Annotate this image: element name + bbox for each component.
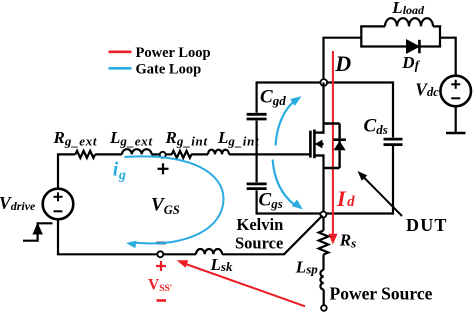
wire: gate return rail <box>57 253 158 255</box>
svg-text:Power Source: Power Source <box>330 283 433 303</box>
legend red line (Power Loop) <box>109 50 132 53</box>
step input symbol <box>23 223 53 241</box>
wire: drain vertical (node D to drain stub) <box>322 83 324 134</box>
inductor Lsp (vertical) <box>320 270 323 290</box>
capacitor Cds <box>384 139 403 145</box>
wire: gate capacitor branch upper segment <box>256 81 258 112</box>
svg-text:Gate Loop: Gate Loop <box>136 61 202 77</box>
svg-text:Power Loop: Power Loop <box>136 45 211 61</box>
resistor Rg_ext <box>75 151 95 158</box>
wire: Vdrive bottom lead <box>57 219 59 254</box>
node: power source terminal (open circle) <box>321 305 327 311</box>
label Kelvin Source <box>235 215 283 253</box>
VGS minus sign (black) <box>157 242 166 245</box>
gate loop blue arc with arrowhead <box>125 156 224 248</box>
wire Lg_ext to external gate node <box>152 153 161 155</box>
wire Rs to Lsp <box>322 255 324 271</box>
svg-text:Kelvin: Kelvin <box>237 215 284 234</box>
MOSFET Q1: source stub <box>314 154 323 156</box>
node: source sense terminal (open circle) <box>157 251 163 257</box>
wire Lsp to power source terminal <box>323 290 325 306</box>
load box left edge <box>360 26 362 46</box>
wire: load box to Vdc <box>440 38 456 76</box>
load box bottom edge <box>360 45 441 47</box>
node: Kelvin source (open circle) <box>320 212 326 218</box>
red minus sign (Vss) <box>157 299 167 302</box>
load box right edge <box>439 25 441 46</box>
wire: Cds branch (right side of DUT box) <box>392 81 394 214</box>
wire: capacitor branch middle segment <box>256 121 258 183</box>
Cgs displacement current blue arrow <box>273 160 303 210</box>
inductor Lg_int <box>208 150 229 155</box>
wire node to Rg_int <box>166 153 172 155</box>
MOSFET Q1: drain stub <box>314 131 323 133</box>
Vdc minus sign <box>451 97 460 99</box>
svg-text:Source: Source <box>235 234 283 253</box>
Vdrive minus sign <box>54 210 63 212</box>
source Vdrive (circle) <box>43 189 74 220</box>
wire: Vdc bottom lead with end bar <box>446 106 466 133</box>
body diode of Q1 <box>333 140 346 151</box>
svg-text:DUT: DUT <box>406 215 448 235</box>
wire Lg_int to MOSFET gate (crosses Cgd/Cgs branch) <box>229 153 310 155</box>
node D (open circle on top rail) <box>320 79 327 86</box>
wire Lsk to kelvin diagonal <box>222 216 322 255</box>
resistor Rs (vertical) <box>319 217 329 255</box>
wire: source vertical (source stub to kelvin node) <box>322 154 324 214</box>
svg-text:D: D <box>334 51 351 76</box>
MOSFET Q1: body stub with arrow <box>315 140 324 149</box>
legend blue line (Gate Loop) <box>109 67 132 70</box>
wire: DUT box top rail <box>257 81 394 83</box>
diode Df (freewheeling, on box bottom edge) <box>407 40 420 53</box>
MOSFET Q1: channel bar <box>313 130 316 159</box>
source Vdc (circle) <box>440 76 471 107</box>
red pointer arrow to source sense node <box>177 260 305 306</box>
wire: capacitor branch lower segment <box>256 190 258 214</box>
wire node to Lsk <box>163 253 196 255</box>
MOSFET Q1: gate bar <box>309 131 312 158</box>
wire between Rg_ext and Lg_ext <box>95 153 122 155</box>
wire: DUT box bottom rail <box>257 212 394 214</box>
Vdrive plus sign <box>54 192 63 201</box>
Vdc plus sign <box>451 80 460 89</box>
body diode branch: top and bottom ties <box>324 124 340 169</box>
Cgd displacement current blue arrow <box>276 96 302 145</box>
load box top edge with inductor L_load <box>360 18 441 26</box>
red plus sign (Vss) <box>156 261 166 271</box>
VGS plus sign (black) <box>158 163 169 174</box>
wire Rg_int to Lg_int <box>191 153 208 155</box>
capacitor Cgs <box>247 184 267 189</box>
resistor Rg_int <box>172 151 192 158</box>
inductor Lsk <box>196 249 222 254</box>
wire: Vdrive top lead and left corner of gate rail <box>58 154 75 188</box>
svg-text:Lload: Lload <box>391 0 425 17</box>
node: external gate terminal (open circle) <box>160 152 166 158</box>
black arrow pointing to DUT <box>358 171 403 216</box>
power loop red line with arrow <box>328 51 337 245</box>
inductor Lg_ext <box>122 149 152 154</box>
wire: drain riser from node D up and right to load box <box>324 38 362 79</box>
capacitor Cgd <box>247 114 267 119</box>
